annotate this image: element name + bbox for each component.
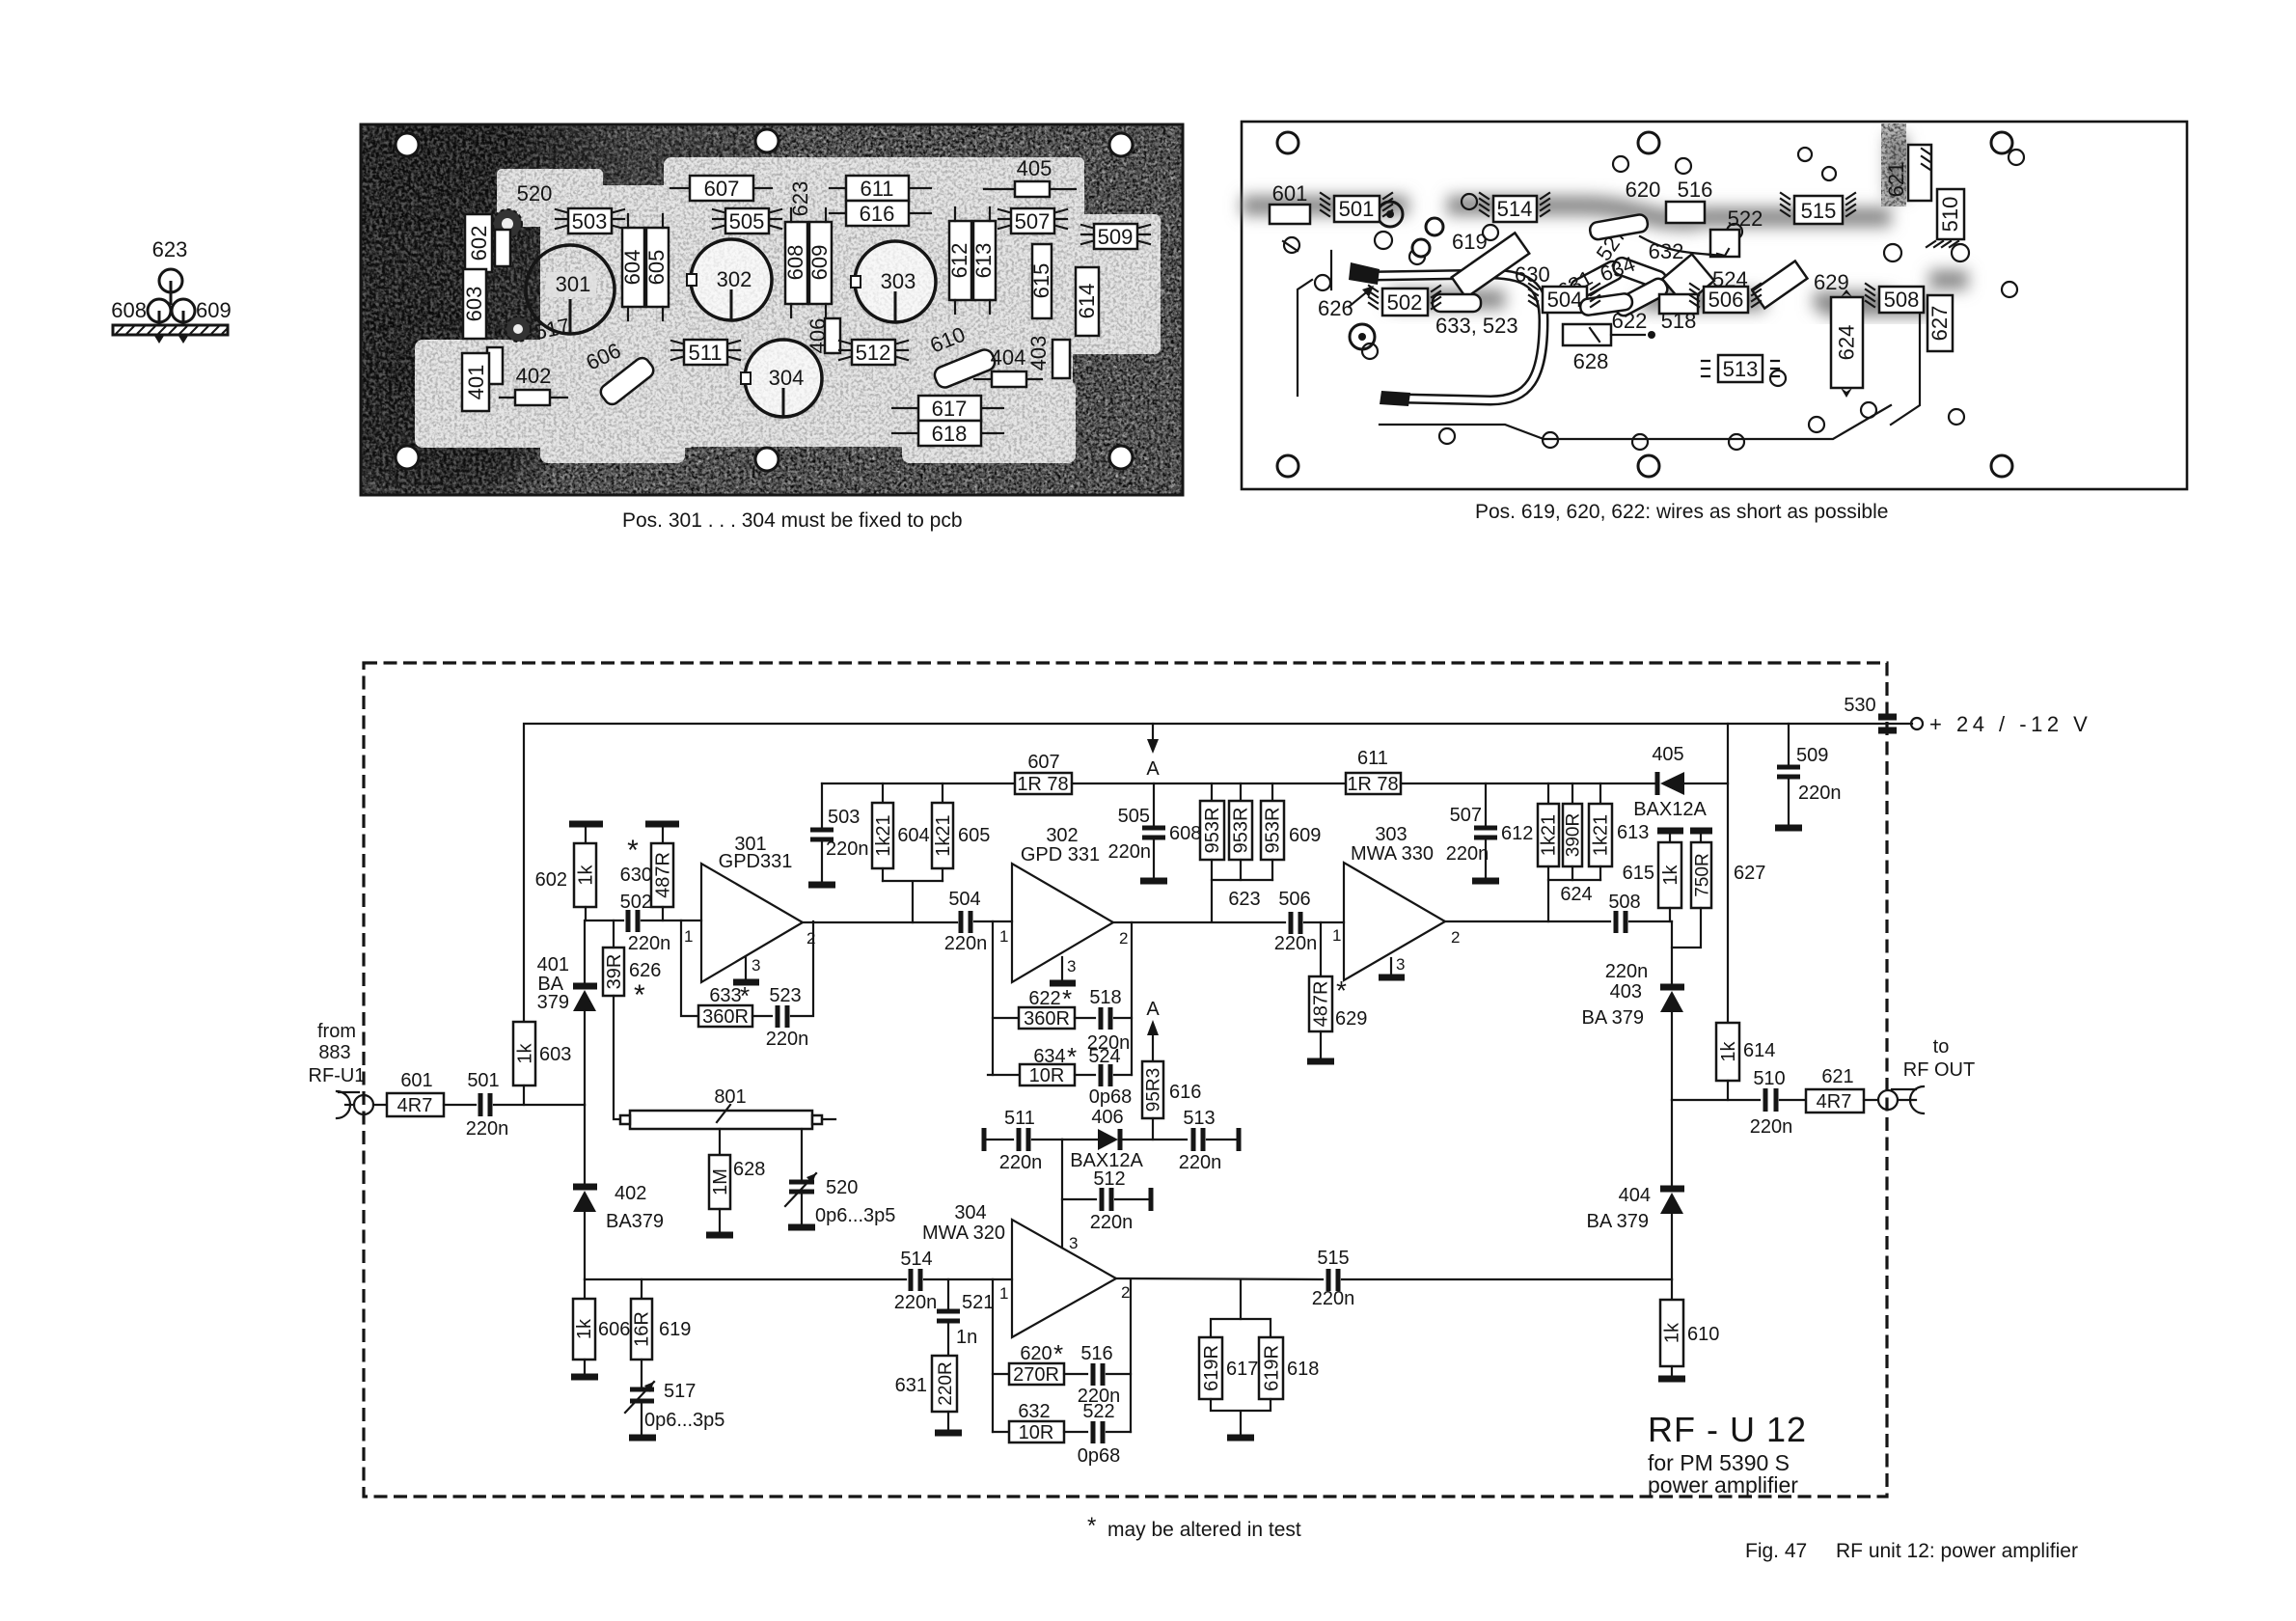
title RF - U12 (1648, 1410, 1807, 1497)
label 634 diagonal + body (1597, 252, 1670, 318)
supply rail A wire mid section (1072, 783, 1346, 784)
svg-text:604: 604 (897, 825, 929, 846)
wire output 302 (1113, 921, 1285, 923)
svg-text:627: 627 (1734, 863, 1765, 884)
svg-text:220n: 220n (894, 1292, 938, 1313)
wire input node (494, 1104, 585, 1106)
ground pin3 302 (1050, 957, 1076, 983)
svg-text:220n: 220n (1750, 1116, 1793, 1138)
svg-text:RF OUT: RF OUT (1903, 1059, 1975, 1081)
resistor 604 1k21 (872, 783, 930, 881)
svg-text:511: 511 (1004, 1108, 1035, 1129)
svg-text:220n: 220n (1605, 961, 1649, 982)
mounting hole (755, 448, 779, 471)
legend components 608 609 symbols (148, 299, 195, 325)
svg-text:623: 623 (1228, 889, 1260, 910)
svg-text:505: 505 (1118, 806, 1150, 827)
svg-text:*: * (1053, 1339, 1063, 1368)
svg-text:603: 603 (539, 1044, 571, 1065)
label 632 + body (1611, 239, 1683, 290)
capacitor 504 220n (944, 889, 1012, 954)
thin board traces (1283, 241, 1920, 439)
capacitor 502 220n (586, 892, 701, 954)
svg-text:602: 602 (535, 869, 567, 891)
wire output 303 (1445, 920, 1610, 922)
arrow 626 (1318, 286, 1374, 320)
svg-text:601: 601 (1272, 181, 1308, 206)
svg-text:GPD331: GPD331 (719, 851, 793, 872)
diode 403 BA 379 (1581, 981, 1684, 1100)
svg-text:401: 401 (464, 365, 488, 400)
svg-text:2: 2 (1121, 1283, 1130, 1302)
svg-text:1M: 1M (710, 1168, 731, 1195)
resistor 628 1M (706, 1129, 765, 1235)
svg-text:304: 304 (954, 1202, 986, 1223)
ground pin3 303 (1379, 958, 1405, 977)
svg-text:605: 605 (644, 250, 669, 286)
svg-text:1R 78: 1R 78 (1347, 774, 1398, 795)
hatch ticks on boxes (1321, 149, 1958, 309)
mounting hole (1277, 455, 1298, 477)
panel frame (1242, 122, 2187, 489)
svg-text:621: 621 (1884, 162, 1908, 198)
rail tap for 602 (569, 824, 603, 843)
svg-text:*: * (1062, 984, 1072, 1013)
label 405 + diode body (984, 156, 1076, 197)
resistor boxes 604 605 (620, 214, 669, 320)
resistor boxes 612 613 (947, 207, 996, 314)
wire (444, 1104, 476, 1106)
resistor 634 10R + capacitor 524 0p68 (988, 1042, 1132, 1108)
svg-text:220n: 220n (826, 838, 869, 860)
svg-text:615: 615 (1623, 863, 1654, 884)
svg-text:*: * (1067, 1042, 1077, 1071)
svg-text:520: 520 (826, 1177, 858, 1198)
svg-text:513: 513 (1723, 357, 1759, 381)
svg-text:617: 617 (1226, 1359, 1258, 1380)
svg-text:0p6...3p5: 0p6...3p5 (644, 1410, 724, 1431)
wire vertical 403/404 chain (1671, 921, 1673, 984)
resistor 614 1k (1716, 1023, 1775, 1100)
net A arrow (from supply bus) (1146, 724, 1160, 780)
svg-text:2: 2 (1451, 928, 1460, 947)
diode 401 BA 379 (537, 954, 597, 1105)
mounting hole (1991, 132, 2012, 153)
resistor 750R (1672, 842, 1713, 948)
svg-text:503: 503 (572, 209, 608, 234)
svg-text:401: 401 (537, 954, 569, 975)
label box 505 (713, 208, 781, 234)
label 403 vertical + body (1026, 336, 1070, 378)
svg-text:516: 516 (1678, 178, 1713, 202)
svg-text:1: 1 (1332, 926, 1341, 945)
svg-text:612: 612 (947, 243, 971, 279)
svg-text:524: 524 (1088, 1046, 1120, 1067)
label 621 vertical + body (1884, 145, 1931, 201)
svg-text:612: 612 (1501, 823, 1533, 844)
svg-text:632: 632 (1018, 1401, 1050, 1422)
trimmer gear 517 (506, 314, 572, 344)
svg-text:220n: 220n (1312, 1288, 1355, 1309)
mounting hole (396, 133, 419, 156)
label 524 + tilted body (1662, 254, 1748, 305)
svg-text:514: 514 (900, 1249, 932, 1270)
svg-text:10R: 10R (1029, 1065, 1065, 1086)
svg-text:MWA 320: MWA 320 (922, 1223, 1005, 1244)
svg-text:220n: 220n (1090, 1212, 1134, 1233)
svg-text:619R: 619R (1262, 1345, 1283, 1391)
legend component 623 symbol (159, 269, 182, 305)
svg-text:523: 523 (769, 985, 801, 1006)
svg-text:620: 620 (1020, 1343, 1052, 1364)
small body 633 (1433, 294, 1518, 338)
label 619 + pin (1412, 218, 1488, 257)
svg-text:220R: 220R (936, 1361, 956, 1405)
figure caption (1745, 1540, 2078, 1562)
svg-text:RF-U1: RF-U1 (309, 1065, 366, 1086)
svg-text:*: * (634, 979, 645, 1011)
svg-text:620: 620 (1626, 178, 1661, 202)
svg-text:GPD 331: GPD 331 (1021, 844, 1100, 865)
wire 39R to delay line 801 (614, 996, 630, 1119)
svg-text:1k: 1k (576, 864, 597, 885)
supply bus wire (top) (524, 724, 1912, 1022)
svg-text:A: A (1146, 758, 1160, 780)
pcb photo background (314, 99, 1183, 507)
svg-text:A: A (1146, 999, 1160, 1020)
svg-text:power amplifier: power amplifier (1648, 1472, 1798, 1497)
label 622 + body (1579, 292, 1647, 333)
svg-text:510: 510 (1938, 197, 1962, 233)
resistor 626 39R (603, 920, 661, 1011)
svg-text:516: 516 (1080, 1343, 1112, 1364)
svg-text:3: 3 (1396, 955, 1405, 974)
wire divider tie 604/605 (883, 881, 943, 922)
resistor 622 360R + capacitor 518 220n (993, 984, 1132, 1054)
svg-text:618: 618 (932, 422, 968, 446)
svg-text:404: 404 (1619, 1185, 1651, 1206)
svg-text:503: 503 (828, 807, 860, 828)
svg-text:10R: 10R (1019, 1422, 1054, 1443)
label 627 vertical box (1927, 295, 1953, 351)
label box 503 (556, 208, 624, 234)
label box 618 (892, 421, 1003, 446)
svg-text:1R 78: 1R 78 (1017, 774, 1068, 795)
capacitor 515 220n (1312, 1248, 1672, 1309)
svg-text:512: 512 (1093, 1168, 1125, 1190)
svg-text:619: 619 (1452, 230, 1488, 254)
label box 617 (892, 396, 1003, 421)
svg-text:504: 504 (948, 889, 980, 910)
svg-text:220n: 220n (628, 933, 671, 954)
resistor 632 10R + capacitor 522 0p68 (993, 1401, 1131, 1467)
output connector to RF OUT (1864, 1086, 1924, 1113)
label 602 vertical + resistor (465, 214, 510, 272)
svg-text:522: 522 (1728, 206, 1763, 231)
wire (584, 920, 586, 984)
svg-text:515: 515 (1317, 1248, 1349, 1269)
svg-text:1: 1 (684, 927, 693, 946)
capacitor 506 220n (1274, 889, 1344, 954)
label 623 vertical (788, 181, 812, 234)
resistor 605 1k21 (932, 783, 990, 881)
svg-text:220n: 220n (1274, 933, 1318, 954)
svg-text:220n: 220n (766, 1029, 809, 1050)
svg-text:403: 403 (1026, 336, 1051, 371)
resistor 615 1k (1623, 842, 1681, 921)
resistor 631 220R (895, 1356, 962, 1433)
svg-text:Pos. 619, 620, 622: wires as s: Pos. 619, 620, 622: wires as short as po… (1475, 501, 1888, 523)
svg-text:517: 517 (664, 1381, 696, 1402)
svg-text:3: 3 (752, 956, 760, 975)
label box 616 (830, 201, 931, 226)
label 601 + body (1270, 181, 1310, 224)
svg-text:953R: 953R (1202, 808, 1223, 854)
op-amp 304 MWA 320 (922, 1202, 1130, 1337)
svg-text:953R: 953R (1231, 808, 1252, 854)
svg-text:608: 608 (1169, 823, 1201, 844)
label box 506 (1704, 287, 1748, 313)
diode 404 BA 379 (1586, 1100, 1684, 1279)
svg-text:614: 614 (1743, 1040, 1775, 1061)
net A arrow up + resistor 616 95R3 (1142, 999, 1201, 1140)
resistor 629 487R (1307, 922, 1367, 1061)
feedback 304 right vertical (1130, 1279, 1132, 1432)
svg-text:BA379: BA379 (606, 1211, 664, 1232)
resistor 614 vertical (1075, 267, 1099, 336)
capacitor 503 220n (808, 783, 869, 885)
resistor 621 4R7 (1806, 1066, 1864, 1113)
resistor 620 270R + capacitor 516 220n (993, 1339, 1131, 1407)
svg-text:*: * (627, 835, 639, 866)
resistor 606 1k (571, 1279, 630, 1377)
label box 509 (1081, 224, 1150, 249)
svg-text:626: 626 (629, 960, 661, 981)
svg-text:BA 379: BA 379 (1586, 1211, 1649, 1232)
label box 611 (830, 176, 931, 201)
svg-text:1n: 1n (956, 1327, 977, 1348)
svg-text:390R: 390R (1564, 813, 1584, 857)
svg-text:521: 521 (962, 1292, 994, 1313)
svg-text:220n: 220n (466, 1118, 509, 1140)
svg-text:506: 506 (1708, 288, 1744, 312)
label 402 + body (500, 364, 567, 405)
svg-text:RF unit 12: power amplifier: RF unit 12: power amplifier (1836, 1540, 2078, 1562)
label box 502 (1382, 288, 1428, 316)
svg-text:220n: 220n (1179, 1152, 1222, 1173)
resistor 607 1R78 (1015, 752, 1072, 795)
svg-text:522: 522 (1082, 1401, 1114, 1422)
feedback 302 right vertical (1131, 922, 1133, 1075)
ground pin3 301 (733, 957, 759, 982)
svg-text:Pos. 301 . . . 304 must be fix: Pos. 301 . . . 304 must be fixed to pcb (622, 509, 963, 532)
svg-text:611: 611 (1357, 748, 1388, 769)
note: may be altered in test (1087, 1513, 1301, 1541)
svg-text:487R: 487R (1311, 981, 1332, 1028)
svg-text:1k21: 1k21 (1539, 814, 1560, 856)
svg-text:628: 628 (1573, 349, 1609, 373)
wire pin3 304 up (1061, 1140, 1063, 1248)
svg-text:1k: 1k (1660, 864, 1681, 885)
resistor 602 1k (535, 843, 597, 920)
svg-text:607: 607 (704, 177, 740, 201)
shaded copper traces (1242, 135, 1968, 307)
resistor 609 953R (1261, 783, 1321, 880)
svg-text:613: 613 (1617, 822, 1649, 843)
svg-text:633: 633 (709, 985, 741, 1006)
trimmer capacitor 517 0p6...3p5 (625, 1381, 724, 1438)
svg-text:1k: 1k (574, 1318, 595, 1339)
svg-text:1k: 1k (515, 1042, 536, 1063)
svg-text:611: 611 (860, 177, 893, 201)
mounting hole (1109, 133, 1133, 156)
mounting hole (1638, 132, 1659, 153)
label box 514 (1493, 196, 1537, 222)
mounting hole (1109, 446, 1133, 469)
svg-text:+ 24 / -12 V: + 24 / -12 V (1929, 712, 2091, 736)
label 401 vertical (462, 353, 489, 411)
svg-text:220n: 220n (1108, 841, 1152, 863)
legend pcb cross-section bar (113, 325, 228, 343)
svg-text:617: 617 (932, 397, 968, 421)
coax cable loop (1349, 202, 1544, 406)
svg-text:608: 608 (111, 298, 147, 322)
label 624 vertical box (1831, 289, 1863, 398)
svg-text:624: 624 (1835, 325, 1859, 361)
mounting hole (755, 129, 779, 152)
svg-text:*: * (1087, 1513, 1096, 1539)
label 516 + body (1666, 178, 1712, 223)
feedback 304 left vertical (992, 1279, 994, 1432)
svg-text:0p6...3p5: 0p6...3p5 (815, 1205, 895, 1226)
scan dirt overlay (361, 124, 1183, 495)
svg-text:220n: 220n (944, 933, 988, 954)
svg-text:1: 1 (999, 927, 1008, 946)
svg-text:BAX12A: BAX12A (1633, 799, 1707, 820)
label 630 + diagonal body (1452, 233, 1550, 297)
capacitor 507 220n (1446, 783, 1534, 881)
resistor 624 390R (1560, 783, 1592, 905)
op-amp 303 MWA 330 (1332, 824, 1460, 980)
resistor 612 1k21 (1538, 783, 1560, 880)
svg-text:16R: 16R (632, 1311, 653, 1347)
svg-text:628: 628 (733, 1159, 765, 1180)
stub terminal + capacitor 511 220n (984, 1108, 1062, 1173)
resistor 615 vertical (1029, 244, 1053, 318)
svg-text:3: 3 (1067, 957, 1076, 975)
svg-text:630: 630 (620, 865, 652, 886)
svg-text:510: 510 (1753, 1068, 1785, 1089)
capacitor 513 220n + stub (1179, 1108, 1239, 1173)
svg-text:615: 615 (1029, 263, 1053, 299)
component 610 diagonal (932, 347, 998, 390)
svg-text:405: 405 (1652, 744, 1683, 765)
input connector from 883 RF-U1 (337, 1091, 387, 1118)
resistor 608 953R (1200, 783, 1224, 880)
svg-text:406: 406 (1091, 1107, 1123, 1128)
svg-text:632: 632 (1649, 239, 1684, 263)
label box 512 (839, 340, 908, 365)
svg-text:1k21: 1k21 (1591, 814, 1612, 856)
svg-text:405: 405 (1017, 156, 1052, 180)
transistor 302 outline (687, 239, 772, 320)
label box 507 (998, 208, 1067, 234)
svg-text:487R: 487R (653, 852, 674, 898)
svg-text:501: 501 (1339, 197, 1375, 221)
trimmer capacitor 520 0p6...3p5 (785, 1129, 895, 1227)
solder pads (1284, 148, 2024, 450)
label box 501 (1334, 196, 1380, 222)
svg-text:from: from (317, 1021, 356, 1042)
svg-text:511: 511 (688, 341, 722, 365)
resistor 603 1k (513, 1022, 571, 1105)
wire 620-522 (1640, 236, 1729, 256)
svg-text:608: 608 (783, 245, 807, 281)
op-amp 301 GPD331 (684, 834, 815, 982)
svg-text:506: 506 (1278, 889, 1310, 910)
mounting hole (1991, 455, 2012, 477)
svg-text:301: 301 (556, 272, 591, 296)
svg-text:504: 504 (1547, 288, 1583, 312)
svg-text:1k: 1k (1718, 1040, 1739, 1061)
resistor 619 16R (631, 1279, 691, 1387)
svg-text:629: 629 (1814, 270, 1849, 294)
svg-text:626: 626 (1318, 296, 1353, 320)
label 620 (1589, 178, 1660, 240)
resistor 611 1R78 (1346, 748, 1401, 795)
svg-text:621: 621 (1821, 1066, 1853, 1087)
svg-text:1k21: 1k21 (933, 814, 954, 856)
resistor 601 4R7 (387, 1070, 444, 1116)
label 629 + diagonal body (1753, 261, 1849, 309)
diode 405 BAX12A (1633, 744, 1728, 820)
capacitor 501 220n (466, 1070, 509, 1140)
resistor 610 1k (1658, 1279, 1719, 1379)
label 522 + body (1710, 206, 1763, 257)
svg-text:512: 512 (856, 341, 891, 365)
svg-text:883: 883 (318, 1042, 350, 1063)
rail tap for 487R 630 (645, 824, 679, 843)
capacitor 510 220n (1750, 1068, 1806, 1138)
svg-text:Fig. 47: Fig. 47 (1745, 1540, 1807, 1562)
pcb white silk areas (415, 157, 1161, 463)
svg-text:270R: 270R (1013, 1364, 1059, 1386)
svg-text:616: 616 (1169, 1082, 1201, 1103)
transistor 303 outline (851, 241, 936, 322)
label 631 diagonal + body (1554, 259, 1626, 303)
svg-text:624: 624 (1560, 884, 1592, 905)
svg-text:MWA 330: MWA 330 (1351, 843, 1434, 865)
svg-text:379: 379 (537, 992, 569, 1013)
node label from 883 RF-U1 (309, 1021, 366, 1086)
svg-text:623: 623 (152, 237, 188, 261)
svg-text:302: 302 (1046, 825, 1078, 846)
component 606 diagonal (598, 355, 657, 407)
svg-text:302: 302 (717, 267, 752, 291)
label 628 + body (1563, 324, 1655, 373)
node label to RF OUT (1903, 1036, 1975, 1081)
wire divider tie 608/623/609 (1212, 880, 1272, 921)
svg-text:505: 505 (729, 209, 765, 234)
mounting hole (1277, 132, 1298, 153)
rail tap 750R (1690, 831, 1712, 842)
svg-text:402: 402 (516, 364, 552, 388)
label box 511 (671, 340, 740, 365)
svg-text:619: 619 (659, 1319, 691, 1340)
capacitor 512 220n + stub (1062, 1168, 1151, 1233)
resistor 630 487R (620, 835, 674, 920)
svg-text:502: 502 (620, 892, 652, 913)
